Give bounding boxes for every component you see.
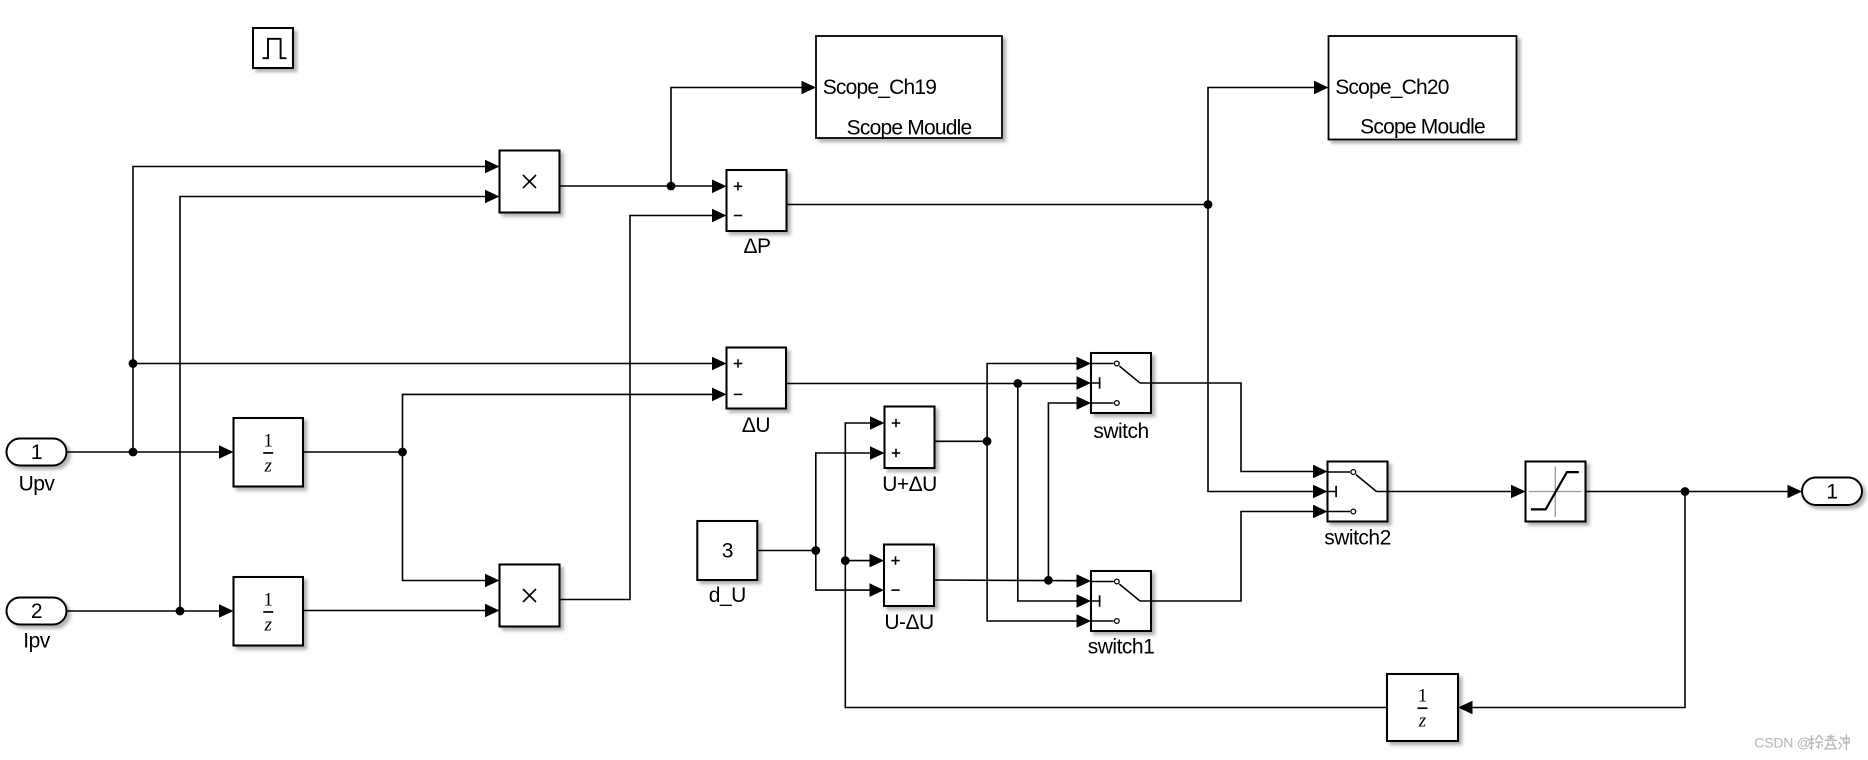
unit delay UD1 (1/z) [234,418,304,487]
wire branch up to switch input 1 [987,364,1076,442]
wire branch up to Scope_Ch19 [671,88,802,187]
arrowhead into output port 1 [1788,485,1803,499]
wire branch down to switch2 control [1208,205,1313,492]
svg-text:1: 1 [264,430,274,451]
svg-text:z: z [264,614,273,635]
svg-text:Scope_Ch20: Scope_Ch20 [1335,76,1449,99]
junction on output wire [1681,487,1690,496]
junction P1 output [667,182,676,191]
junction on Upv wire [129,448,138,457]
wire switch output to switch2 input 1 [1151,383,1313,472]
junction Upv branch to dU [129,359,138,368]
svg-text:Scope Moudle: Scope Moudle [1360,116,1485,139]
wire Upv branch to dU plus input [133,363,712,365]
constant block value 3 [697,521,757,580]
wire U-dU output to switch1 input 1 [934,579,1077,582]
junction on Ipv wire [176,607,185,616]
arrowhead into P2 input 1 [485,574,500,588]
product block P2 (multiply) [500,565,560,627]
junction U+dU output [983,437,992,446]
junction UD1 output [398,448,407,457]
arrowhead into dU minus [712,388,727,402]
arrowhead into saturation [1511,485,1526,499]
wire P1 output to dP plus input [560,185,713,187]
arrowhead into dU plus [712,357,727,371]
arrowhead into UD2 [219,604,234,618]
pulse generator block [253,28,293,68]
svg-text:1: 1 [31,441,42,464]
arrowhead into P2 input 2 [485,604,500,618]
wire switch2 output to saturation [1388,491,1512,493]
product block P1 (multiply) [500,151,560,213]
output port 1 [1802,478,1862,506]
wire saturation output to output port [1586,491,1788,493]
wire branch up to Scope_Ch20 [1208,88,1314,205]
arrowhead into switch2 input 3 [1313,505,1328,519]
svg-text:Scope_Ch19: Scope_Ch19 [823,76,937,99]
arrowhead into P1 input 2 [485,190,500,204]
switch block [1091,353,1151,413]
wire Upv to UD1 [67,451,220,453]
svg-text:ΔU: ΔU [742,414,770,437]
wire UD1 output [303,451,403,453]
wire UD1 branch to dU minus input [403,394,713,452]
wire Upv branch up to product P1 input 1 [133,167,485,453]
wire branch down to switch1 input 3 [987,441,1076,621]
wire branch up to U+dU input 2 [816,453,870,551]
arrowhead into switch2 control [1313,485,1328,499]
junction feedback to U-dU [841,556,850,565]
wire UD2 output to product P2 input 2 [303,610,485,612]
arrowhead into dP plus [712,180,727,194]
unit delay UD3 (1/z) feedback [1387,674,1458,741]
svg-text:1: 1 [1418,686,1428,707]
wire P2 output to dP minus input [560,216,713,600]
svg-text:2: 2 [31,600,42,623]
svg-text:ΔP: ΔP [743,235,770,258]
svg-text:U+ΔU: U+ΔU [882,473,937,496]
sum block U+dU (+,+) [885,407,935,469]
svg-text:1: 1 [1826,480,1837,503]
wire dP output [787,204,1209,206]
svg-text:z: z [264,455,273,476]
arrowhead into switch input 3 [1077,396,1092,410]
unit delay UD2 (1/z) [234,577,304,646]
arrowhead into U-dU minus [870,583,885,597]
wire branch up to switch input 3 [1048,403,1076,580]
scope block Scope_Ch20 [1329,36,1517,140]
junction constant output [811,546,820,555]
svg-text:d_U: d_U [709,584,746,607]
wire constant 3 output [757,550,816,552]
arrowhead into U-dU input 1 [870,554,885,568]
wire branch down to switch1 control [1018,384,1077,602]
svg-text:switch2: switch2 [1324,527,1391,550]
svg-text:switch: switch [1093,420,1148,443]
wire branch down to U-dU minus input [816,551,870,591]
saturation block [1526,462,1586,522]
arrowhead into P1 input 1 [485,160,500,174]
sum block U-dU (+,-) [884,545,934,607]
svg-text:CSDN @: CSDN @ [1754,734,1811,750]
wire dU output to switch control [786,383,1077,385]
wire UD1 branch to product P2 input 1 [403,452,486,581]
svg-text:Ipv: Ipv [23,630,51,653]
arrowhead into Scope_Ch20 [1314,81,1329,95]
svg-text:z: z [1418,711,1427,732]
junction dP output [1204,200,1213,209]
input port 1 [7,439,67,466]
junction U-dU output [1044,576,1053,585]
arrowhead into U+dU input 1 [870,416,885,430]
arrowhead into switch2 input 1 [1313,465,1328,479]
arrowhead into dP minus [712,209,727,223]
wire feedback branch to U-dU input 1 [845,560,869,562]
svg-text:Scope Moudle: Scope Moudle [847,117,972,140]
arrowhead into switch1 input 1 [1077,574,1092,588]
svg-text:switch1: switch1 [1088,636,1155,659]
watermark chinese glyphs [1810,735,1849,750]
input port 2 [7,598,67,625]
arrowhead into switch1 control [1077,594,1092,608]
arrowhead into UD3 (left) [1458,701,1473,715]
svg-text:Upv: Upv [19,473,56,496]
scope block Scope_Ch19 [816,36,1002,140]
wire Ipv branch up to product P1 input 2 [180,197,485,612]
wire switch1 output to switch2 input 3 [1151,512,1313,602]
sum block dU (+,-) [727,348,787,409]
arrowhead into UD1 [219,445,234,459]
wire UD3 feedback to U+dU input 1 [845,423,1387,708]
junction dU output [1013,379,1022,388]
switch1 block [1091,571,1151,631]
sum block dP (+,-) [727,170,787,231]
wire U+dU output [935,440,988,442]
arrowhead into switch control [1077,376,1092,390]
wire Ipv to UD2 [67,610,220,612]
arrowhead into U+dU input 2 [870,446,885,460]
svg-text:3: 3 [722,540,733,563]
svg-text:1: 1 [264,589,274,610]
arrowhead into switch1 input 3 [1077,614,1092,628]
wire feedback down to UD3 [1473,492,1686,708]
arrowhead into switch input 1 [1077,357,1092,371]
switch2 block [1328,462,1388,522]
svg-text:U-ΔU: U-ΔU [884,611,933,634]
arrowhead into Scope_Ch19 [802,81,817,95]
